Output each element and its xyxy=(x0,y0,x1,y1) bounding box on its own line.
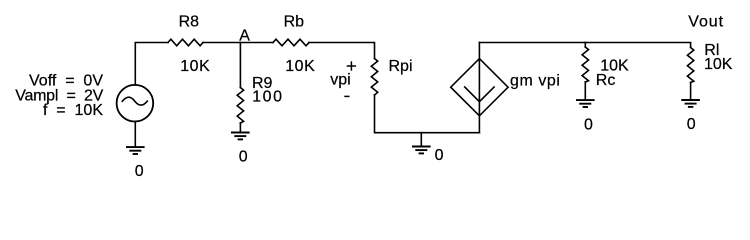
wire: source bottom to ground xyxy=(134,122,136,147)
wire: Rpi down and bottom wire to diamond xyxy=(375,95,480,133)
wire: top left from source corner to R8 xyxy=(135,43,168,85)
svg-text:Rpi: Rpi xyxy=(389,58,413,75)
wire: vertical through dependent source xyxy=(478,43,480,133)
resistor R8 xyxy=(168,39,203,46)
svg-text:100: 100 xyxy=(252,89,284,106)
minus sign for vpi xyxy=(344,95,349,97)
wire: Rc tap down xyxy=(584,43,586,48)
voltage source V1 circle xyxy=(117,85,154,122)
resistor R9 (vertical) xyxy=(237,88,243,124)
resistor Rc (vertical) xyxy=(582,47,588,82)
wire: node A down to R9 xyxy=(239,43,241,88)
svg-text:Rb: Rb xyxy=(284,13,305,30)
svg-text:10K: 10K xyxy=(285,58,315,75)
ground under R9 xyxy=(231,133,250,140)
resistor Rpi (vertical) xyxy=(371,59,377,96)
svg-text:0: 0 xyxy=(584,116,593,133)
dependent source arrow head xyxy=(465,87,494,102)
wire: Rl to ground xyxy=(690,83,692,100)
plus sign for vpi xyxy=(344,61,356,96)
dependent source G1 diamond xyxy=(451,59,508,116)
svg-text:0: 0 xyxy=(135,163,144,180)
wire: R8 to node A to Rb xyxy=(203,42,273,44)
svg-text:0: 0 xyxy=(687,116,696,133)
wire: middle ground stem xyxy=(420,133,422,147)
svg-text:A: A xyxy=(239,28,250,45)
ground symbols xyxy=(126,100,700,154)
resistor Rl (vertical) xyxy=(687,48,693,83)
wire: Rb to Rpi corner xyxy=(309,43,375,59)
svg-text:0: 0 xyxy=(239,148,248,165)
svg-text:0: 0 xyxy=(435,147,444,164)
wire: R9 to ground xyxy=(239,123,241,133)
ground under source xyxy=(126,147,145,154)
svg-text:vpi: vpi xyxy=(330,71,350,88)
svg-text:10K: 10K xyxy=(180,58,210,75)
ground under Rl xyxy=(681,100,700,107)
svg-text:gm vpi: gm vpi xyxy=(510,72,560,89)
svg-text:f = 10K: f = 10K xyxy=(43,102,103,119)
resistor Rb xyxy=(273,39,309,46)
svg-text:Vout: Vout xyxy=(688,14,724,31)
ground under Rc xyxy=(576,100,595,107)
wire: Rc to ground xyxy=(584,82,586,100)
wire: top right from diamond to Rl xyxy=(479,43,690,48)
voltage source sine wave xyxy=(122,97,147,105)
svg-text:10K: 10K xyxy=(704,56,733,73)
ground middle (node 0) xyxy=(412,147,431,154)
svg-text:R8: R8 xyxy=(179,13,200,30)
svg-text:Rc: Rc xyxy=(596,72,616,89)
